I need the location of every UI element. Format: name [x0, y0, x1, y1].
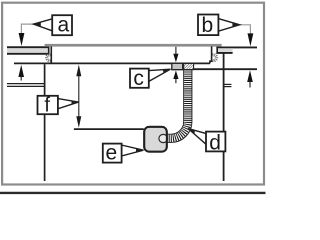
cabinet side wall left — [44, 64, 46, 181]
label c: box — [130, 69, 149, 88]
label d: box — [206, 132, 225, 152]
worktop left: top surface line — [7, 46, 49, 48]
label b: flag dark tip — [232, 23, 239, 28]
worktop left: cutout edge — [48, 46, 50, 54]
label b: callout flag — [218, 19, 239, 32]
worktop right: cutout edge — [216, 47, 218, 54]
hob right clamp curl — [212, 55, 216, 61]
dimension c: upper stem — [175, 47, 177, 56]
dimension b: up arrow stem — [249, 79, 251, 88]
dimension a: up arrow stem — [20, 74, 22, 81]
right rail double line upper — [225, 83, 232, 85]
intermediate shelf line — [74, 128, 144, 130]
dimension c: down arrowhead — [173, 54, 178, 63]
svg-text:b: b — [201, 14, 213, 37]
label c: callout flag — [149, 69, 171, 81]
dimension c: up arrowhead — [173, 70, 178, 79]
flexible gas hose: outline — [167, 69, 188, 138]
dimension c: lower stem — [175, 77, 177, 83]
worktop right: top surface line — [216, 46, 257, 48]
label f: flag dark tip — [72, 101, 79, 105]
label a: callout flag — [34, 19, 54, 32]
dimension f: up arrowhead — [76, 65, 81, 77]
hose union nut (hatched) — [184, 64, 194, 70]
svg-text:e: e — [106, 141, 118, 164]
left rail double line lower — [7, 85, 45, 87]
label f: box — [38, 96, 58, 114]
label c: flag dark tip — [163, 69, 171, 73]
right rail double line lower — [225, 86, 232, 88]
svg-text:a: a — [57, 14, 69, 37]
label b: down arrowhead onto worktop — [248, 33, 254, 46]
svg-text:d: d — [209, 132, 221, 155]
hob left clamp curl — [47, 55, 51, 61]
worktop left: fill — [7, 47, 49, 54]
label a: box — [52, 15, 72, 35]
label e: callout flag — [121, 145, 143, 156]
cabinet side wall right (upper segment) — [223, 53, 225, 132]
dimension b: up arrowhead under clearance line — [247, 70, 253, 82]
svg-text:f: f — [44, 95, 50, 117]
hob bottom reference line — [14, 62, 210, 64]
hob left wall — [50, 46, 52, 63]
hob glass top — [45, 44, 222, 47]
worktop right: bottom line — [216, 52, 232, 54]
gas tap hose socket — [159, 134, 168, 142]
figure frame border — [2, 3, 264, 185]
worktop left: bottom line — [7, 53, 49, 55]
label d: callout flag — [188, 129, 206, 145]
gas tap connection box — [144, 127, 167, 152]
label a: leader line — [21, 24, 34, 34]
flexible gas hose: corrugation rungs — [167, 69, 188, 138]
hob right wall — [210, 46, 212, 63]
worktop right: fill — [216, 48, 232, 53]
cabinet side wall right (lower segment) — [223, 152, 225, 181]
label e: box — [103, 144, 122, 163]
label f: callout flag — [58, 99, 79, 109]
label b: box — [198, 15, 218, 36]
label a: down arrowhead onto worktop — [19, 33, 25, 46]
gas tap connection box border over socket — [144, 127, 167, 152]
left rail double line upper — [7, 83, 45, 85]
label b: leader line — [239, 25, 250, 34]
dimension f: down arrowhead — [76, 116, 81, 128]
label a: flag dark tip — [34, 22, 41, 26]
svg-text:c: c — [133, 67, 144, 90]
label e: flag dark tip — [136, 149, 143, 153]
flexible gas hose: body — [167, 69, 188, 138]
label d: flag dark tip — [188, 129, 195, 134]
dimension a: up arrowhead under hob bottom — [18, 65, 24, 77]
gas inlet fitting under hob — [172, 63, 183, 69]
footer rule line — [0, 192, 266, 194]
gas connection clearance reference line (right) — [190, 68, 258, 70]
dimension f: stem — [78, 70, 80, 122]
